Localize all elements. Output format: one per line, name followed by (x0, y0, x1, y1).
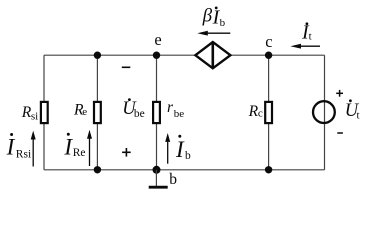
svg-text:t: t (309, 31, 312, 43)
wire bottom rail (44, 169, 325, 171)
svg-text:be: be (134, 108, 145, 120)
node dot bottom Re (94, 166, 101, 173)
voltage source Ut circle (313, 101, 335, 123)
voltage source plus (336, 92, 343, 94)
resistor Rsi body (41, 102, 48, 123)
wire top rail right of diamond (230, 54, 324, 56)
svg-text:b: b (220, 17, 226, 29)
current It label (306, 22, 309, 25)
voltage Ube label (128, 98, 131, 101)
resistor rbe body (153, 102, 160, 123)
svg-text:e: e (154, 30, 161, 49)
svg-text:I: I (175, 137, 185, 162)
wire left branch (Rsi) (43, 55, 45, 170)
svg-text:c: c (265, 32, 272, 51)
resistor Re body (94, 102, 101, 123)
node b dot (153, 166, 161, 174)
current IRe arrow (89, 137, 91, 167)
svg-text:β: β (202, 6, 213, 27)
svg-text:Rsi: Rsi (16, 148, 31, 160)
resistor Rc body (265, 102, 272, 123)
node dot top Re (94, 52, 101, 59)
svg-text:c: c (258, 108, 263, 120)
ground bar (149, 186, 168, 189)
voltage Ube plus sign (122, 151, 131, 153)
svg-text:e: e (82, 106, 87, 118)
current Ib arrow (167, 140, 169, 164)
svg-text:be: be (174, 108, 185, 120)
node dot bottom Rc (265, 166, 272, 173)
voltage source minus (337, 132, 343, 134)
voltage Ube minus sign (122, 66, 131, 68)
svg-text:si: si (31, 111, 38, 123)
current IRsi label (10, 133, 13, 136)
wire right branch (Ut source) (324, 55, 326, 170)
ground stub (155, 170, 157, 186)
svg-text:b: b (169, 171, 177, 188)
current IRsi arrow (32, 138, 34, 167)
controlled source label Ib (215, 7, 218, 10)
svg-text:Re: Re (73, 147, 86, 159)
controlled source inner bar (212, 42, 215, 68)
current Ib label (178, 135, 181, 138)
svg-text:t: t (357, 109, 360, 121)
node c dot (265, 52, 272, 59)
wire rbe branch (156, 55, 158, 170)
current It arrow (299, 45, 320, 47)
controlled source direction arrow (207, 32, 230, 34)
svg-text:b: b (185, 150, 191, 162)
voltage source Ut label (349, 99, 352, 102)
wire top rail left of diamond (44, 54, 195, 56)
wire Rc branch (268, 55, 270, 170)
controlled current source beta*Ib diamond (195, 42, 230, 68)
svg-text:I: I (6, 134, 16, 159)
node e dot (153, 52, 160, 59)
current IRe label (67, 133, 70, 136)
wire Re branch (96, 55, 98, 170)
